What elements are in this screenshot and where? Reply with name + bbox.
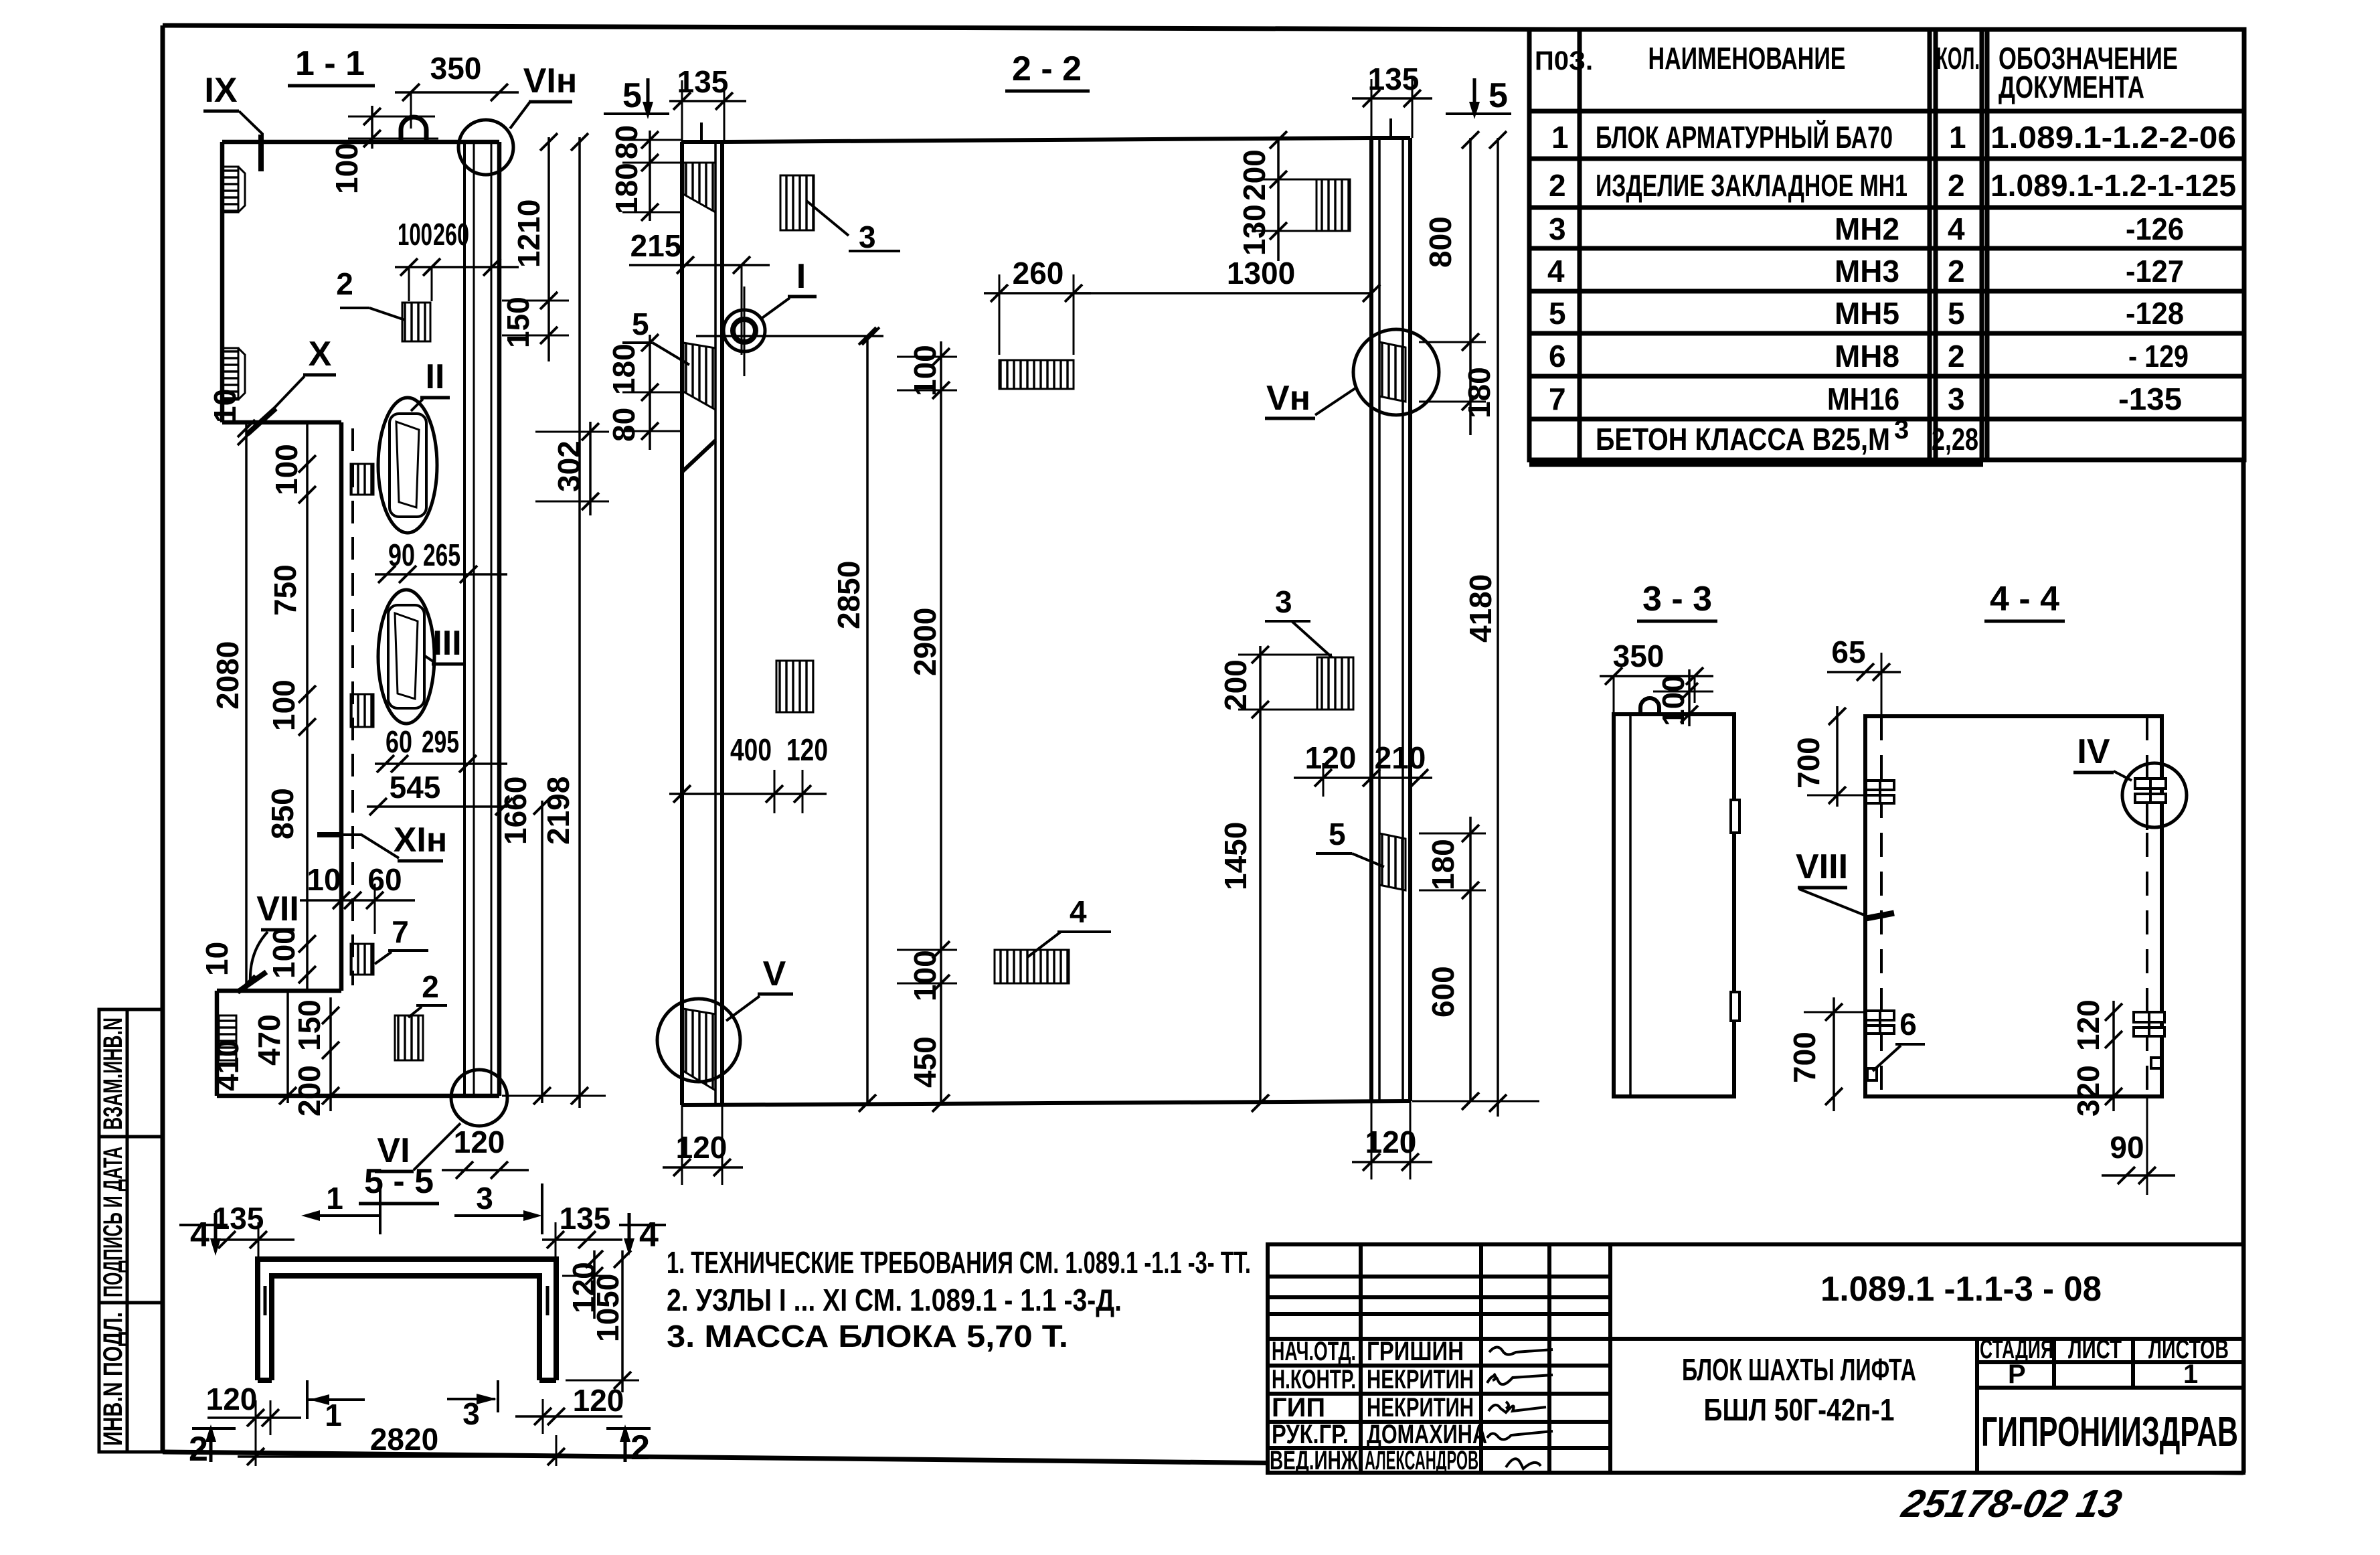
section 1-1 outline bbox=[217, 142, 499, 1096]
svg-text:III: III bbox=[432, 624, 461, 663]
svg-text:4: 4 bbox=[1070, 894, 1087, 929]
svg-text:3: 3 bbox=[1549, 212, 1566, 246]
svg-text:5: 5 bbox=[1948, 296, 1965, 331]
svg-text:450: 450 bbox=[908, 1036, 942, 1088]
svg-text:265: 265 bbox=[423, 538, 460, 572]
node VI circle at bottom of wall bbox=[451, 1070, 507, 1126]
svg-text:210: 210 bbox=[1375, 740, 1426, 775]
svg-text:ВЗАМ.ИНВ.N: ВЗАМ.ИНВ.N bbox=[98, 1017, 128, 1130]
svg-text:3 - 3: 3 - 3 bbox=[1642, 580, 1712, 619]
svg-text:Vн: Vн bbox=[1266, 379, 1310, 418]
svg-text:2: 2 bbox=[189, 1430, 208, 1469]
svg-text:1.089.1-1.2-1-125: 1.089.1-1.2-1-125 bbox=[1990, 168, 2236, 203]
svg-text:4: 4 bbox=[1547, 254, 1565, 289]
node VIн circle top right bbox=[458, 120, 513, 175]
svg-text:2: 2 bbox=[1948, 254, 1965, 289]
node I level line bbox=[724, 335, 883, 337]
svg-text:1660: 1660 bbox=[498, 776, 533, 845]
svg-text:1: 1 bbox=[1551, 120, 1569, 155]
svg-text:1.089.1-1.2-2-06: 1.089.1-1.2-2-06 bbox=[1990, 120, 2236, 155]
svg-text:470: 470 bbox=[252, 1014, 286, 1066]
svg-text:2900: 2900 bbox=[908, 608, 942, 676]
svg-text:180: 180 bbox=[606, 343, 641, 395]
wall face lines 1-1 bbox=[464, 142, 491, 1096]
svg-text:5 - 5: 5 - 5 bbox=[364, 1162, 434, 1201]
embed plate 3 right-lower bbox=[1317, 657, 1353, 710]
svg-text:Р: Р bbox=[2008, 1360, 2026, 1389]
svg-text:80: 80 bbox=[606, 408, 641, 442]
svg-text:5: 5 bbox=[1489, 76, 1508, 115]
svg-text:Н.КОНТР.: Н.КОНТР. bbox=[1272, 1365, 1356, 1394]
svg-text:2: 2 bbox=[630, 1428, 650, 1467]
svg-text:2 - 2: 2 - 2 bbox=[1012, 50, 1082, 88]
svg-text:-135: -135 bbox=[2118, 382, 2182, 416]
svg-text:100: 100 bbox=[908, 950, 942, 1001]
svg-text:700: 700 bbox=[1791, 737, 1826, 789]
svg-text:25178-02 13: 25178-02 13 bbox=[1897, 1483, 2125, 1526]
embed plate 2 lower bbox=[395, 1015, 423, 1060]
svg-text:ИЗДЕЛИЕ ЗАКЛАДНОЕ МН1: ИЗДЕЛИЕ ЗАКЛАДНОЕ МН1 bbox=[1596, 168, 1907, 203]
section 4-4 outline bbox=[1865, 716, 2162, 1096]
embed plate 100-dim mid bbox=[999, 360, 1074, 389]
svg-text:10: 10 bbox=[207, 389, 242, 423]
right wall of 2-2 bbox=[1371, 118, 1410, 1101]
svg-text:V: V bbox=[763, 955, 786, 993]
svg-text:410: 410 bbox=[210, 1040, 245, 1091]
svg-text:320: 320 bbox=[2071, 1065, 2106, 1117]
svg-text:НЕКРИТИН: НЕКРИТИН bbox=[1367, 1365, 1474, 1394]
4-4 dashed lines bbox=[1880, 716, 1883, 1096]
detail oval III bbox=[378, 590, 434, 724]
svg-text:1: 1 bbox=[326, 1181, 343, 1216]
svg-text:100: 100 bbox=[266, 679, 301, 731]
svg-text:135: 135 bbox=[213, 1201, 264, 1236]
svg-text:- 129: - 129 bbox=[2128, 339, 2189, 374]
svg-text:БШЛ 50Г-42п-1: БШЛ 50Г-42п-1 bbox=[1704, 1392, 1895, 1427]
svg-text:260: 260 bbox=[433, 217, 469, 252]
svg-text:1450: 1450 bbox=[1218, 822, 1253, 890]
svg-text:НЕКРИТИН: НЕКРИТИН bbox=[1367, 1393, 1474, 1422]
svg-text:200: 200 bbox=[1218, 659, 1253, 711]
svg-text:НАЧ.ОТД.: НАЧ.ОТД. bbox=[1272, 1337, 1356, 1366]
svg-text:4180: 4180 bbox=[1463, 574, 1498, 643]
embed plate 2 upper bbox=[402, 303, 430, 341]
svg-text:1: 1 bbox=[1949, 120, 1966, 155]
svg-text:4: 4 bbox=[1948, 212, 1965, 246]
strip plate X upper bbox=[351, 464, 373, 495]
svg-text:ПОДПИСЬ И ДАТА: ПОДПИСЬ И ДАТА bbox=[98, 1147, 128, 1297]
signature rows bbox=[1270, 1337, 1487, 1475]
svg-text:100: 100 bbox=[329, 143, 364, 194]
svg-text:МН5: МН5 bbox=[1835, 296, 1899, 331]
svg-text:120: 120 bbox=[1365, 1125, 1417, 1159]
svg-text:400: 400 bbox=[730, 732, 772, 767]
svg-text:МН2: МН2 bbox=[1835, 212, 1899, 246]
svg-text:3: 3 bbox=[859, 220, 876, 254]
3-3 right tab upper bbox=[1731, 800, 1739, 833]
svg-text:ДОМАХИНА: ДОМАХИНА bbox=[1367, 1420, 1487, 1449]
svg-text:100: 100 bbox=[266, 927, 301, 979]
svg-text:3: 3 bbox=[1275, 584, 1292, 619]
svg-text:БЛОК ШАХТЫ ЛИФТА: БЛОК ШАХТЫ ЛИФТА bbox=[1682, 1352, 1916, 1387]
svg-text:2198: 2198 bbox=[541, 776, 576, 845]
svg-text:302: 302 bbox=[551, 440, 586, 492]
detail oval II bbox=[378, 398, 437, 533]
4-4 embed right upper in circle IV bbox=[2135, 779, 2166, 830]
svg-text:10: 10 bbox=[307, 862, 341, 897]
svg-text:IX: IX bbox=[204, 71, 237, 110]
svg-text:120: 120 bbox=[573, 1383, 624, 1418]
svg-text:100: 100 bbox=[908, 345, 942, 396]
svg-text:6: 6 bbox=[1549, 339, 1566, 374]
svg-text:АЛЕКСАНДРОВ: АЛЕКСАНДРОВ bbox=[1365, 1446, 1478, 1475]
svg-text:РУК.ГР.: РУК.ГР. bbox=[1272, 1420, 1349, 1449]
svg-text:350: 350 bbox=[430, 51, 482, 86]
embed plate 3 top-left bbox=[780, 175, 814, 230]
left wall of 2-2 bbox=[682, 122, 722, 1105]
svg-text:2850: 2850 bbox=[831, 561, 866, 629]
svg-text:295: 295 bbox=[422, 724, 459, 759]
svg-text:БЛОК АРМАТУРНЫЙ БА70: БЛОК АРМАТУРНЫЙ БА70 bbox=[1596, 120, 1893, 155]
svg-text:ГИПРОНИИЗДРАВ: ГИПРОНИИЗДРАВ bbox=[1981, 1409, 2238, 1455]
svg-text:IV: IV bbox=[2077, 732, 2110, 771]
hidden dashed wall line 1-1 bbox=[351, 428, 354, 985]
svg-text:150: 150 bbox=[292, 999, 327, 1051]
svg-text:4: 4 bbox=[190, 1216, 209, 1254]
section 3-3 outline bbox=[1614, 714, 1734, 1096]
svg-text:800: 800 bbox=[1423, 216, 1458, 268]
svg-text:НАИМЕНОВАНИЕ: НАИМЕНОВАНИЕ bbox=[1648, 41, 1846, 76]
svg-text:100: 100 bbox=[398, 217, 432, 252]
embed plate mid-left lower bbox=[776, 661, 813, 712]
svg-text:XIн: XIн bbox=[394, 821, 448, 860]
svg-text:ГИП: ГИП bbox=[1272, 1393, 1325, 1422]
svg-text:700: 700 bbox=[1787, 1032, 1822, 1083]
svg-text:2,28: 2,28 bbox=[1932, 422, 1978, 457]
strip plate X mid bbox=[351, 694, 373, 727]
svg-text:60: 60 bbox=[386, 724, 412, 759]
svg-text:-127: -127 bbox=[2126, 254, 2184, 289]
channel inner marks bbox=[264, 1286, 267, 1315]
svg-text:3: 3 bbox=[1948, 382, 1965, 416]
svg-text:180: 180 bbox=[1426, 839, 1460, 890]
4-4 small foot right bbox=[2151, 1058, 2162, 1068]
4-4 embed right lower bbox=[2134, 1012, 2164, 1036]
svg-text:5: 5 bbox=[632, 307, 649, 341]
foot embed (МН16) bbox=[219, 1015, 236, 1060]
title block frame bbox=[1268, 1244, 2243, 1473]
svg-text:6: 6 bbox=[1899, 1007, 1917, 1042]
svg-text:10: 10 bbox=[199, 942, 234, 976]
svg-text:II: II bbox=[426, 357, 445, 396]
edge embed top (МН8) bbox=[222, 167, 238, 212]
svg-text:3. МАССА БЛОКА 5,70 Т.: 3. МАССА БЛОКА 5,70 Т. bbox=[667, 1319, 1068, 1354]
svg-text:I: I bbox=[796, 257, 806, 296]
svg-text:200: 200 bbox=[1237, 149, 1272, 201]
items table frame bbox=[1529, 29, 2244, 465]
svg-text:ИНВ.N ПОДЛ.: ИНВ.N ПОДЛ. bbox=[98, 1312, 128, 1446]
svg-text:120: 120 bbox=[676, 1130, 728, 1165]
svg-text:545: 545 bbox=[390, 770, 441, 805]
svg-text:7: 7 bbox=[1549, 382, 1566, 416]
svg-text:260: 260 bbox=[1013, 256, 1064, 291]
svg-text:БЕТОН КЛАССА В25,М: БЕТОН КЛАССА В25,М bbox=[1596, 422, 1890, 457]
svg-text:135: 135 bbox=[677, 64, 729, 99]
svg-text:3: 3 bbox=[476, 1181, 493, 1216]
svg-text:120: 120 bbox=[786, 732, 828, 767]
signature squiggles bbox=[1487, 1347, 1553, 1469]
svg-text:X: X bbox=[309, 335, 332, 374]
svg-text:850: 850 bbox=[265, 788, 300, 839]
left frame stamp boxes bbox=[99, 1009, 163, 1452]
embed trapezoid right wall mid (МН5) bbox=[1379, 833, 1406, 890]
svg-text:4: 4 bbox=[639, 1216, 659, 1254]
svg-text:ДОКУМЕНТА: ДОКУМЕНТА bbox=[1999, 70, 2144, 104]
3-3 lifting loop bbox=[1640, 698, 1659, 714]
node IV circle bbox=[2122, 763, 2187, 827]
embed plate top-right bbox=[1316, 179, 1350, 231]
embed trapezoid right wall top in circle VIн bbox=[1379, 342, 1406, 402]
svg-text:1. ТЕХНИЧЕСКИЕ ТРЕБОВАНИЯ СМ: 1. ТЕХНИЧЕСКИЕ ТРЕБОВАНИЯ СМ. 1.089.1 -1… bbox=[667, 1245, 1251, 1280]
svg-text:МН16: МН16 bbox=[1827, 382, 1899, 416]
svg-text:2: 2 bbox=[1948, 168, 1965, 203]
svg-text:3: 3 bbox=[1894, 415, 1909, 444]
svg-text:5: 5 bbox=[1329, 817, 1346, 851]
svg-text:135: 135 bbox=[560, 1201, 611, 1236]
svg-text:2: 2 bbox=[422, 969, 439, 1004]
svg-text:120: 120 bbox=[454, 1125, 505, 1159]
node I circle bbox=[724, 310, 765, 351]
svg-text:1300: 1300 bbox=[1227, 256, 1295, 291]
svg-text:120: 120 bbox=[2071, 999, 2106, 1051]
svg-text:ЛИСТ: ЛИСТ bbox=[2068, 1335, 2122, 1364]
svg-text:2: 2 bbox=[336, 266, 353, 301]
svg-text:90: 90 bbox=[2110, 1130, 2144, 1165]
edge embed mid (МН8) bbox=[222, 348, 238, 400]
svg-text:80: 80 bbox=[609, 125, 644, 159]
svg-text:П0З.: П0З. bbox=[1535, 46, 1593, 76]
svg-text:100: 100 bbox=[269, 444, 304, 495]
svg-text:VII: VII bbox=[256, 890, 299, 928]
svg-text:7: 7 bbox=[392, 914, 409, 949]
svg-text:5: 5 bbox=[1549, 296, 1566, 331]
embed trapezoid left wall bottom in circle V bbox=[683, 1009, 715, 1090]
svg-text:ВЕД.ИНЖ: ВЕД.ИНЖ bbox=[1270, 1446, 1359, 1475]
embed trapezoid left wall mid (МН5) bbox=[683, 343, 715, 410]
section 2-2 slab outline bbox=[682, 138, 1410, 1105]
svg-text:150: 150 bbox=[501, 297, 535, 348]
svg-text:215: 215 bbox=[630, 228, 682, 263]
svg-text:5: 5 bbox=[622, 76, 642, 115]
svg-text:2. УЗЛЫ I ... XI СМ. 1.089.1: 2. УЗЛЫ I ... XI СМ. 1.089.1 - 1.1 -3-Д. bbox=[667, 1283, 1122, 1317]
svg-text:2: 2 bbox=[1549, 168, 1566, 203]
svg-text:600: 600 bbox=[1426, 966, 1460, 1017]
svg-text:VIII: VIII bbox=[1796, 847, 1848, 886]
4-4 small foot left bbox=[1867, 1068, 1877, 1080]
svg-text:65: 65 bbox=[1831, 635, 1865, 669]
svg-text:4 - 4: 4 - 4 bbox=[1990, 580, 2059, 619]
svg-text:-128: -128 bbox=[2126, 296, 2184, 331]
svg-text:2: 2 bbox=[1948, 339, 1965, 374]
svg-text:1: 1 bbox=[2183, 1360, 2198, 1389]
svg-text:2820: 2820 bbox=[370, 1422, 438, 1457]
svg-text:1.089.1 -1.1-3 - 08: 1.089.1 -1.1-3 - 08 bbox=[1820, 1270, 2102, 1309]
svg-text:2080: 2080 bbox=[210, 641, 245, 710]
svg-text:МН8: МН8 bbox=[1835, 339, 1899, 374]
svg-text:180: 180 bbox=[1462, 367, 1497, 418]
svg-text:120: 120 bbox=[206, 1382, 258, 1416]
svg-text:200: 200 bbox=[292, 1065, 327, 1117]
lifting loop 1-1 bbox=[401, 117, 426, 142]
svg-text:КОЛ.: КОЛ. bbox=[1936, 41, 1980, 76]
svg-text:VIн: VIн bbox=[523, 62, 578, 100]
svg-text:750: 750 bbox=[268, 564, 303, 616]
svg-text:МН3: МН3 bbox=[1835, 254, 1899, 289]
4-4 embed left upper bbox=[1866, 781, 1894, 803]
embed plate 4 bottom-middle bbox=[995, 950, 1069, 983]
svg-text:60: 60 bbox=[367, 862, 402, 897]
svg-text:-126: -126 bbox=[2126, 212, 2184, 246]
strip plate 7 bbox=[351, 944, 373, 975]
svg-text:ГРИШИН: ГРИШИН bbox=[1367, 1337, 1464, 1366]
4-4 embed left lower bbox=[1866, 1011, 1894, 1034]
svg-text:180: 180 bbox=[609, 163, 644, 214]
embed trapezoid left wall top (МН5) bbox=[683, 163, 715, 212]
node VIн circle bbox=[1353, 329, 1439, 415]
3-3 right tab lower bbox=[1731, 992, 1739, 1021]
U-channel outline 5-5 bbox=[258, 1259, 556, 1380]
svg-text:1050: 1050 bbox=[590, 1274, 625, 1342]
node V circle bottom-left bbox=[657, 999, 740, 1082]
svg-text:1 - 1: 1 - 1 bbox=[295, 44, 365, 83]
svg-text:1210: 1210 bbox=[511, 199, 546, 268]
